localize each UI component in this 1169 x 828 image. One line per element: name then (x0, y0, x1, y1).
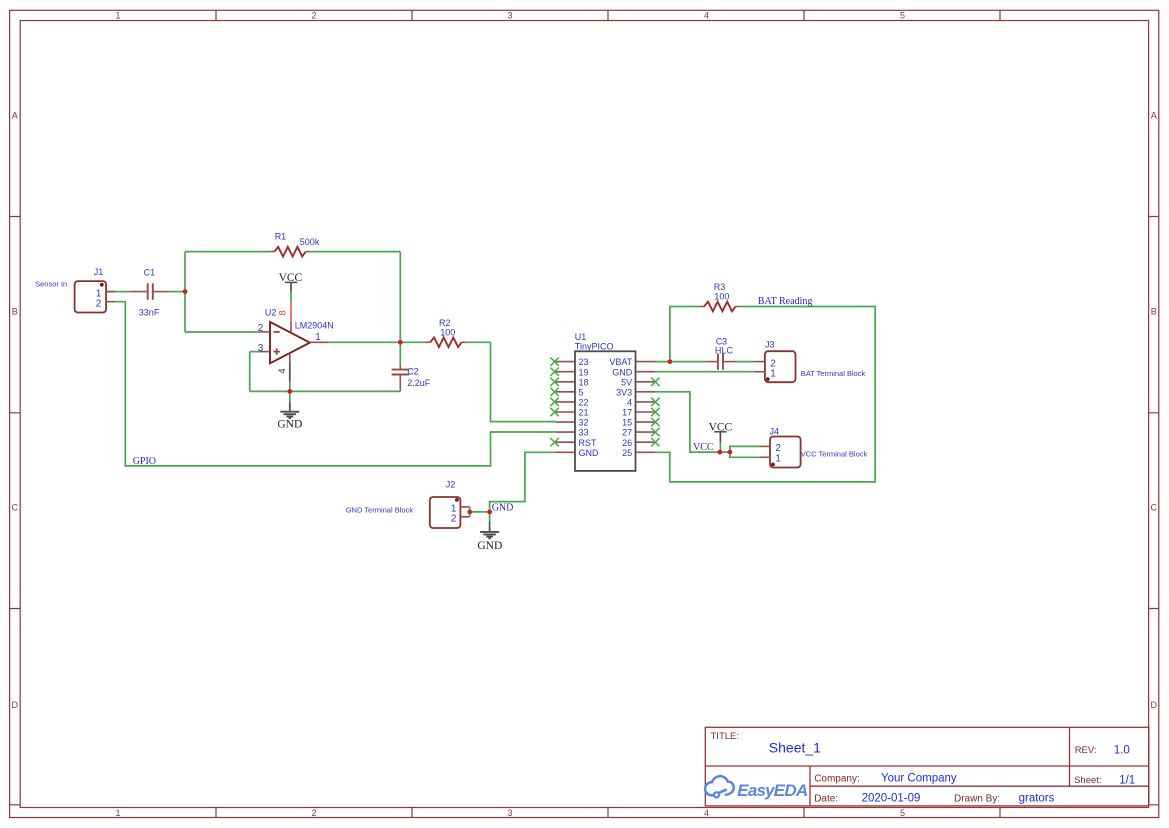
svg-text:2: 2 (451, 514, 457, 525)
svg-text:1: 1 (315, 332, 321, 343)
connector J1 pin 1 stub (106, 291, 115, 293)
svg-text:GND Terminal Block: GND Terminal Block (346, 505, 414, 514)
svg-text:5: 5 (900, 10, 905, 20)
capacitor C1 right lead (154, 291, 170, 293)
node N1 junction (183, 289, 188, 294)
wire: node N1 vertical (feedback left / to op-amp pin2) (184, 252, 186, 332)
svg-text:33nF: 33nF (139, 308, 160, 318)
resistor R3 right lead (736, 306, 740, 308)
wire: VCC flag to op-amp pin8 (290, 291, 292, 302)
svg-text:4: 4 (704, 808, 709, 818)
wire: VCC flag stem lower (719, 442, 721, 452)
wire: C3 to J3 pin2 (736, 361, 755, 363)
node J4 branch junction (728, 450, 733, 455)
wire: R2 right to vertical (466, 341, 490, 343)
wire: feedback top to R1 (185, 251, 271, 253)
svg-text:Company:: Company: (814, 773, 860, 784)
svg-text:8: 8 (278, 310, 289, 315)
capacitor C1 plates (148, 283, 153, 299)
node VBAT junction (668, 359, 673, 364)
svg-text:TITLE:: TITLE: (711, 731, 740, 742)
svg-text:23: 23 (579, 357, 589, 367)
op-amp U2 pin 3 stub (260, 351, 270, 353)
svg-text:GPIO: GPIO (133, 456, 156, 467)
resistor R1 right lead (306, 251, 310, 253)
IC U1 TinyPICO body (575, 351, 636, 471)
node output junction (398, 340, 403, 345)
svg-text:3: 3 (258, 343, 264, 354)
svg-text:R1: R1 (275, 231, 287, 241)
svg-text:C: C (12, 502, 19, 512)
svg-text:100: 100 (714, 292, 729, 302)
svg-text:Your Company: Your Company (881, 773, 957, 785)
svg-text:21: 21 (579, 408, 589, 418)
svg-text:D: D (1151, 700, 1158, 710)
wire: node N1 to op-amp pin2 (185, 331, 260, 333)
wire: J1 pin1 to C1 (106, 291, 130, 293)
resistor R2 right lead (462, 341, 467, 343)
svg-text:2: 2 (96, 299, 102, 310)
connector J3 pin1 marker dot (766, 377, 770, 381)
svg-text:GND: GND (477, 540, 502, 552)
ground flag (op-amp) stem (289, 402, 291, 411)
op-amp U2 pin 4 stub (inner) (289, 353, 291, 362)
svg-text:HLC: HLC (715, 345, 734, 355)
svg-text:BAT Terminal Block: BAT Terminal Block (801, 369, 866, 378)
svg-text:Sensor In: Sensor In (35, 280, 67, 289)
node ground rail junction (287, 389, 292, 394)
svg-text:15: 15 (622, 418, 632, 428)
frame bottom ticks (216, 808, 1000, 818)
svg-text:1: 1 (115, 808, 120, 818)
op-amp U2 minus symbol (274, 331, 280, 333)
svg-text:4: 4 (627, 398, 632, 408)
svg-text:5V: 5V (621, 377, 632, 387)
node VCC flag junction (718, 450, 723, 455)
op-amp U2 plus symbol (274, 349, 280, 355)
op-amp U2 triangle body (270, 322, 310, 363)
wire: VCC node to J4 pin1 (730, 452, 760, 457)
wire: U1 GND left to J2 (490, 452, 556, 512)
wire: output node down to C2 (399, 342, 401, 365)
op-amp U2 output pin 1 stub (310, 341, 329, 343)
svg-text:B: B (12, 306, 18, 316)
connector J2 body (430, 497, 461, 528)
wire: GPIO from J1 pin2 (115, 302, 556, 466)
svg-text:500k: 500k (300, 237, 320, 247)
svg-text:32: 32 (579, 418, 589, 428)
svg-text:C1: C1 (144, 267, 156, 277)
capacitor C2 bottom lead (399, 375, 401, 392)
svg-text:25: 25 (622, 448, 632, 458)
svg-text:19: 19 (579, 367, 589, 377)
IC U1 no-connect X marks left (550, 357, 558, 446)
svg-text:TinyPICO: TinyPICO (575, 341, 614, 351)
wire: U1 GND right to J3 pin1 (655, 371, 754, 373)
svg-text:Drawn By:: Drawn By: (954, 794, 1000, 805)
wire: VCC node to J4 pin2 (730, 446, 760, 452)
wire: op-amp output to R2 (329, 341, 426, 343)
svg-text:2: 2 (311, 10, 316, 20)
svg-text:GND: GND (579, 448, 600, 458)
wire: pin4 lower segment to rail (289, 381, 291, 391)
svg-text:BAT Reading: BAT Reading (758, 296, 813, 307)
connector J4 pin1 marker dot (771, 463, 775, 467)
svg-text:LM2904N: LM2904N (295, 320, 334, 330)
svg-text:1.0: 1.0 (1114, 744, 1130, 756)
frame left ticks (10, 217, 21, 805)
wire: C1 to node N1 (169, 291, 185, 293)
svg-text:VBAT: VBAT (609, 357, 632, 367)
wire: feedback right vertical down to output node (399, 252, 401, 343)
svg-text:EasyEDA: EasyEDA (737, 781, 808, 800)
node GND flag junction (487, 510, 492, 515)
connector J3 pin 2 stub (754, 361, 765, 363)
net flag VCC (J4) stem (719, 432, 721, 443)
svg-text:U2: U2 (265, 307, 277, 317)
connector J1 pin1 marker dot (100, 283, 104, 287)
svg-text:4: 4 (277, 368, 288, 373)
svg-text:J1: J1 (94, 267, 104, 277)
resistor R1 zigzag body (274, 247, 305, 257)
connector J1 body (75, 281, 107, 312)
connector J1 pin 2 stub (106, 301, 115, 303)
wire: op-amp pin3 stub left (250, 351, 260, 353)
op-amp U2 pin 4 stub (gray) (289, 362, 291, 381)
svg-text:A: A (12, 110, 18, 120)
wire: R3 right / BAT Reading loop to pin25 (655, 307, 875, 482)
wire: GND node to J2 pins (470, 511, 490, 513)
op-amp U2 pin 8 stub (inner) (290, 321, 292, 332)
capacitor C1 left lead (130, 291, 147, 293)
title block frame (705, 727, 1149, 806)
svg-text:33: 33 (579, 428, 589, 438)
svg-text:C: C (1151, 502, 1158, 512)
svg-text:R3: R3 (714, 282, 726, 292)
svg-text:J3: J3 (765, 340, 775, 350)
svg-text:RST: RST (579, 438, 598, 448)
svg-text:3: 3 (507, 808, 512, 818)
svg-text:2: 2 (258, 323, 264, 334)
svg-text:GND: GND (277, 419, 302, 431)
resistor R2 left lead (425, 341, 430, 343)
svg-text:GND: GND (492, 502, 514, 513)
resistor R3 left lead (700, 306, 704, 308)
svg-text:J4: J4 (770, 426, 780, 436)
svg-text:J2: J2 (446, 479, 456, 489)
svg-text:5: 5 (900, 808, 905, 818)
wire: rail node to GND flag (289, 391, 291, 402)
wire: J2 pin join vertical (469, 507, 471, 517)
svg-text:3: 3 (507, 10, 512, 20)
wire: GND node to GND flag (489, 512, 491, 522)
node J2 pins junction (467, 510, 472, 515)
connector J3 body (765, 351, 796, 382)
ground flag (op-amp) bars (280, 412, 299, 418)
svg-text:1: 1 (770, 369, 776, 380)
wire: N2 up to R3 left (670, 307, 700, 362)
net flag VCC (op-amp) bar (285, 281, 297, 283)
connector J3 pin 1 stub (754, 371, 765, 373)
svg-text:VCC: VCC (693, 442, 714, 453)
svg-text:grators: grators (1019, 793, 1055, 805)
capacitor C3 right lead (724, 361, 736, 363)
connector J4 body (770, 437, 801, 468)
svg-text:2020-01-09: 2020-01-09 (862, 793, 921, 805)
wire: pin3 vertical down (249, 352, 251, 392)
op-amp U2 pin 2 stub (260, 331, 270, 333)
svg-text:2: 2 (311, 808, 316, 818)
wire: U1 3V3 to VCC node (655, 392, 730, 452)
capacitor C3 left lead (705, 361, 717, 363)
svg-text:B: B (1151, 306, 1157, 316)
svg-text:4: 4 (704, 10, 709, 20)
svg-text:Sheet_1: Sheet_1 (769, 739, 821, 755)
wire: ground rail under op-amp (250, 390, 401, 392)
ground flag (J2) stem (489, 522, 491, 532)
svg-text:27: 27 (622, 428, 632, 438)
svg-text:17: 17 (622, 408, 632, 418)
svg-text:C2: C2 (407, 366, 419, 376)
svg-text:A: A (1151, 110, 1157, 120)
svg-text:18: 18 (579, 377, 589, 387)
connector J2 pin 2 stub (460, 516, 469, 518)
net flag VCC (J4) bar (714, 431, 726, 433)
svg-text:Sheet:: Sheet: (1074, 775, 1101, 786)
connector J4 pin 1 stub (760, 456, 770, 458)
op-amp U2 pin 8 stub (bright) (290, 302, 292, 321)
IC U1 no-connect X marks right (651, 378, 659, 447)
svg-text:D: D (12, 700, 19, 710)
IC U1 right pin stubs (636, 362, 656, 453)
svg-text:GND: GND (612, 367, 633, 377)
capacitor C3 plates (718, 354, 723, 370)
connector J4 pin 2 stub (760, 445, 770, 447)
wire: R1 right to output vertical (310, 251, 401, 253)
svg-text:VCC Terminal Block: VCC Terminal Block (801, 450, 868, 459)
net flag VCC (op-amp) stem (290, 282, 292, 291)
EasyEDA logo cloud (705, 776, 734, 797)
capacitor C2 plates (392, 370, 410, 375)
IC U1 left pin names (579, 357, 600, 458)
IC U1 left pin stubs (556, 362, 575, 453)
connector J2 pin1 marker dot (455, 498, 459, 502)
svg-text:1/1: 1/1 (1119, 774, 1135, 786)
ground flag (J2) bars (480, 532, 499, 538)
capacitor C2 top lead (399, 365, 401, 369)
resistor R1 left lead (270, 251, 274, 253)
wire: U1 VBAT to node N2 (655, 361, 705, 363)
wire: R2 vertical down to pin32 (491, 342, 556, 421)
svg-text:5: 5 (579, 387, 584, 397)
resistor R3 zigzag body (704, 302, 735, 312)
svg-text:100: 100 (440, 327, 455, 337)
svg-text:1: 1 (775, 453, 781, 464)
resistor R2 zigzag body (430, 338, 461, 348)
connector J2 pin 1 stub (460, 506, 469, 508)
frame top ticks (216, 10, 1000, 20)
svg-text:REV:: REV: (1075, 745, 1097, 756)
svg-text:3V3: 3V3 (616, 387, 632, 397)
svg-text:26: 26 (622, 438, 632, 448)
svg-text:22: 22 (579, 398, 589, 408)
svg-text:Date:: Date: (814, 794, 838, 805)
IC U1 right pin names (609, 357, 632, 458)
svg-text:2.2uF: 2.2uF (407, 378, 431, 388)
svg-text:1: 1 (115, 10, 120, 20)
frame right ticks (1149, 217, 1159, 805)
